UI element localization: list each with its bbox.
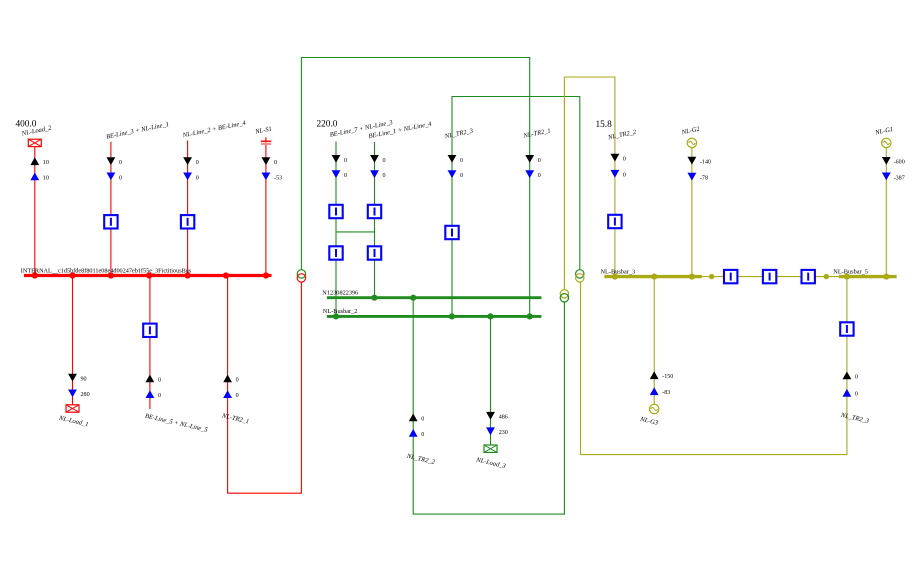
- measurement cubicle 2 BE-Line_7 + NL-Line_3: [329, 246, 342, 259]
- generator NL-G2: [687, 138, 696, 147]
- measurement cubicle NL-Line_2 + BE-Line_4: [181, 215, 194, 228]
- measurement cubicle coupler 2: [763, 270, 776, 283]
- wire NL-Line_2 + BE-Line_4: [187, 141, 189, 276]
- busbar NL-Busbar_5: [839, 275, 897, 278]
- svg-text:NL-G2: NL-G2: [680, 126, 701, 137]
- wire BE-Line_1 + NL-Line_4: [374, 142, 376, 298]
- svg-text:NL-Busbar_2: NL-Busbar_2: [323, 308, 358, 315]
- svg-text:0: 0: [623, 173, 626, 179]
- Q arrow NL-S1: [262, 173, 271, 181]
- svg-text:INTERNAL__c1d5bfde8f8011e08e4d: INTERNAL__c1d5bfde8f8011e08e4d00247eb1f5…: [21, 267, 192, 274]
- P arrow NL-S1: [262, 157, 271, 165]
- svg-text:0: 0: [119, 160, 122, 166]
- P arrow NL-Load_2: [30, 157, 39, 165]
- svg-text:NL-TR2_1: NL-TR2_1: [220, 412, 249, 425]
- P arrow NL_TR2_2 LV: [611, 154, 620, 162]
- wire transformer NL-TR2_1 to NL-Busbar_2 (via top loop): [301, 58, 529, 317]
- svg-text:0: 0: [421, 432, 424, 438]
- Q arrow NL_TR2_2 HV: [409, 429, 418, 437]
- svg-text:10: 10: [43, 175, 49, 181]
- junction dot 3 on INTERNAL busbus: [108, 272, 114, 278]
- generator NL-G1: [882, 138, 891, 147]
- P arrow NL-G2: [688, 157, 697, 165]
- wire NL_TR2_1 HV loop: [228, 276, 302, 494]
- svg-text:NL-G3: NL-G3: [639, 416, 660, 427]
- measurement cubicle NL_TR2_3 LV: [840, 322, 853, 335]
- junction dot 1 on INTERNAL busbus: [32, 272, 38, 278]
- svg-text:NL-Busbar_3: NL-Busbar_3: [601, 268, 636, 275]
- transformer NL_TR2_3 (220/15.8): [576, 270, 584, 282]
- svg-text:0: 0: [344, 173, 347, 179]
- wire NL_TR2_2 LV connection: [564, 77, 615, 290]
- svg-text:0: 0: [538, 158, 541, 164]
- wire NL-Load_3 feeder: [490, 316, 492, 445]
- wire NL_TR2_3 LV loop: [581, 277, 847, 455]
- svg-text:NL-TR2_1: NL-TR2_1: [522, 127, 551, 140]
- svg-text:0: 0: [158, 377, 161, 383]
- svg-text:0: 0: [119, 175, 122, 181]
- svg-text:0: 0: [344, 158, 347, 164]
- svg-text:486: 486: [499, 415, 508, 421]
- junction dot 3 on NL-Busbar_3: [689, 274, 695, 280]
- svg-text:15.8: 15.8: [596, 120, 613, 130]
- junction dot 2 on NL-Busbar_2: [449, 313, 455, 319]
- wire NL-G1 feeder: [885, 148, 887, 277]
- wire NL_TR2_3 HV connection: [452, 97, 580, 317]
- junction dot 2 on NL-Busbar_3: [651, 274, 657, 280]
- svg-text:0: 0: [158, 393, 161, 399]
- svg-text:0: 0: [383, 173, 386, 179]
- junction dot 5 on INTERNAL busbus: [185, 272, 191, 278]
- junction dot 2 on N1230822396: [410, 295, 416, 301]
- Q arrow BE-Line_5 + NL-Line_5: [146, 390, 155, 398]
- P arrow NL_TR2_3 HV: [448, 155, 457, 163]
- svg-text:280: 280: [81, 392, 90, 398]
- svg-text:NL-Line_2 + BE-Line_4: NL-Line_2 + BE-Line_4: [181, 119, 247, 139]
- wire BE-Line_5 + NL-Line_5: [149, 276, 151, 410]
- wire NL-Load_1 feeder: [72, 276, 74, 405]
- Q arrow NL_TR2_2 LV: [611, 170, 620, 178]
- measurement cubicle BE-Line_5 + NL-Line_5: [143, 324, 156, 337]
- svg-text:0: 0: [421, 416, 424, 422]
- wire NL-G3 feeder: [653, 277, 655, 405]
- svg-text:0: 0: [236, 377, 239, 383]
- transformer NL_TR2_2 (220/15.8): [560, 290, 568, 302]
- measurement cubicle coupler 1: [724, 270, 737, 283]
- svg-text:0: 0: [460, 158, 463, 164]
- svg-text:0: 0: [236, 393, 239, 399]
- junction dot 7 on INTERNAL busbus: [263, 272, 269, 278]
- svg-text:0: 0: [274, 160, 277, 166]
- svg-text:NL-S1: NL-S1: [254, 126, 273, 136]
- junction dot 4 on INTERNAL busbus: [146, 272, 152, 278]
- load NL-Load_3: [484, 445, 497, 452]
- svg-text:-78: -78: [700, 175, 708, 181]
- svg-text:N1230822396: N1230822396: [322, 290, 358, 297]
- P arrow NL-TR2_1 LV: [525, 155, 534, 163]
- svg-text:NL_TR2_2: NL_TR2_2: [405, 453, 436, 467]
- svg-text:-53: -53: [274, 175, 282, 181]
- svg-text:-600: -600: [894, 160, 905, 166]
- P arrow BE-Line_5 + NL-Line_5: [146, 375, 155, 383]
- Q arrow NL_TR2_3 HV: [448, 170, 457, 178]
- wire BE-Line_3 + NL-Line_1: [110, 142, 112, 276]
- svg-text:0: 0: [196, 160, 199, 166]
- svg-text:NL_TR2_3: NL_TR2_3: [839, 412, 870, 426]
- measurement cubicle 2 BE-Line_1 + NL-Line_4: [368, 246, 381, 259]
- svg-text:-150: -150: [662, 374, 673, 380]
- measurement cubicle BE-Line_3 + NL-Line_1: [104, 215, 117, 228]
- P arrow NL-Load_3: [486, 412, 495, 420]
- wire BE-Line_7 + NL-Line_3: [335, 142, 337, 317]
- junction dot 1 on NL-Busbar_2: [333, 313, 339, 319]
- load NL-Load_2: [28, 139, 41, 146]
- Q arrow NL-G2: [688, 173, 697, 181]
- Q arrow NL-G1: [882, 173, 891, 181]
- Q arrow NL-Load_2: [30, 173, 39, 181]
- junction dot 2 on NL-Busbar_5: [883, 274, 889, 280]
- svg-text:NL-Load_3: NL-Load_3: [475, 456, 507, 470]
- measurement cubicle NL_TR2_2 LV: [608, 215, 621, 228]
- svg-text:0: 0: [460, 173, 463, 179]
- busbar NL-Busbar_3: [604, 275, 701, 278]
- svg-text:0: 0: [855, 392, 858, 398]
- P arrow NL-Line_2 + BE-Line_4: [183, 157, 192, 165]
- svg-text:NL-Load_1: NL-Load_1: [57, 415, 89, 429]
- P arrow NL_TR2_2 HV: [409, 414, 418, 422]
- measurement cubicle 1 BE-Line_7 + NL-Line_3: [329, 205, 342, 218]
- shunt capacitor NL-S1: [261, 137, 271, 144]
- P arrow BE-Line_3 + NL-Line_1: [107, 157, 116, 165]
- svg-text:0: 0: [538, 173, 541, 179]
- junction dot coupler left: [709, 274, 714, 279]
- junction dot 3 on NL-Busbar_2: [487, 313, 493, 319]
- P arrow NL-Load_1: [68, 374, 77, 382]
- junction dot 1 on N1230822396: [371, 295, 377, 301]
- Q arrow NL-Line_2 + BE-Line_4: [183, 173, 192, 181]
- P arrow BE-Line_1 + NL-Line_4: [370, 155, 379, 163]
- wire tie between line cubicles: [336, 231, 375, 233]
- Q arrow NL-TR2_1 LV: [525, 170, 534, 178]
- measurement cubicle NL_TR2_3: [445, 226, 458, 239]
- busbar NL-Busbar_2: [327, 315, 542, 318]
- svg-text:NL-G1: NL-G1: [874, 126, 894, 137]
- junction dot 1 on NL-Busbar_3: [612, 274, 618, 280]
- svg-text:NL-Busbar_5: NL-Busbar_5: [833, 268, 868, 275]
- Q arrow BE-Line_7 + NL-Line_3: [332, 170, 341, 178]
- measurement cubicle coupler 3: [802, 270, 815, 283]
- svg-text:0: 0: [623, 157, 626, 163]
- Q arrow NL_TR2_3 LV: [843, 389, 852, 397]
- P arrow NL-G1: [882, 157, 891, 165]
- junction dot 2 on INTERNAL busbus: [69, 272, 75, 278]
- junction dot 6 on INTERNAL busbus: [223, 272, 229, 278]
- svg-text:-83: -83: [662, 390, 670, 396]
- svg-text:BE-Line_5 + NL-Line_5: BE-Line_5 + NL-Line_5: [144, 413, 209, 434]
- busbar N1230822396: [327, 296, 542, 299]
- P arrow NL_TR2_3 LV: [843, 372, 852, 380]
- svg-text:230: 230: [499, 430, 508, 436]
- svg-text:NL_TR2_3: NL_TR2_3: [443, 127, 474, 140]
- Q arrow NL-G3: [650, 387, 659, 395]
- junction dot coupler right: [824, 274, 829, 279]
- wire NL_TR2_2 HV loop: [413, 298, 564, 514]
- svg-text:220.0: 220.0: [317, 119, 338, 129]
- junction dot 1 on NL-Busbar_5: [844, 274, 850, 280]
- wire NL-Load_2 feeder: [34, 147, 36, 276]
- svg-text:-387: -387: [894, 175, 905, 181]
- Q arrow BE-Line_1 + NL-Line_4: [370, 170, 379, 178]
- svg-text:0: 0: [383, 158, 386, 164]
- Q arrow NL_TR2_1 HV: [223, 390, 232, 398]
- wire NL-S1 feeder: [265, 144, 267, 276]
- svg-text:0: 0: [855, 374, 858, 380]
- Q arrow NL-Load_1: [68, 390, 77, 398]
- transformer NL-TR2_1 (400/220): [297, 270, 305, 282]
- svg-text:10: 10: [43, 160, 49, 166]
- svg-text:NL_TR2_2: NL_TR2_2: [607, 129, 638, 142]
- busbar INTERNAL__c1d5bfde8f8011e08e4d00247eb1f55e_3FictitiousBus: [24, 274, 272, 277]
- load NL-Load_1: [66, 405, 79, 412]
- P arrow NL-G3: [650, 371, 659, 379]
- measurement cubicle 1 BE-Line_1 + NL-Line_4: [368, 205, 381, 218]
- svg-text:0: 0: [196, 175, 199, 181]
- wire NL-G2 feeder: [691, 148, 693, 277]
- junction dot 4 on NL-Busbar_2: [527, 313, 533, 319]
- svg-text:90: 90: [81, 377, 87, 383]
- Q arrow BE-Line_3 + NL-Line_1: [107, 173, 116, 181]
- wire coupler between NL-Busbar_3 and NL-Busbar_5: [702, 276, 839, 278]
- P arrow BE-Line_7 + NL-Line_3: [332, 155, 341, 163]
- P arrow NL_TR2_1 HV: [223, 375, 232, 383]
- svg-text:BE-Line_3 + NL-Line_1: BE-Line_3 + NL-Line_1: [106, 121, 170, 141]
- svg-text:-140: -140: [700, 159, 711, 165]
- generator NL-G3: [650, 404, 659, 413]
- Q arrow NL-Load_3: [486, 427, 495, 435]
